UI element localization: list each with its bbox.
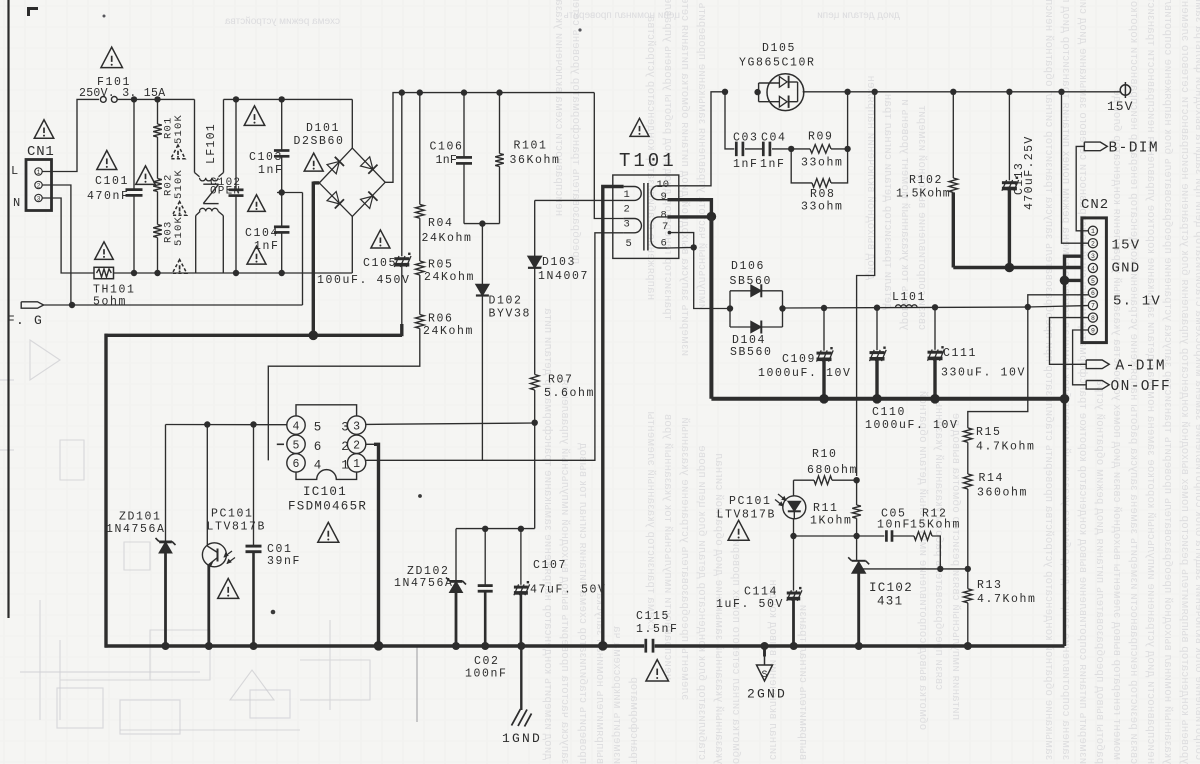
wire bridge bottom corner [351,217,353,274]
warning triangle below IC101 [318,522,339,542]
thick wire secondary ground bus [711,397,1064,401]
wire R05-R06 [419,275,421,315]
capacitor C03 [725,92,734,149]
node C111 top [932,304,938,310]
svg-text:D102: D102 [489,295,523,308]
wire bridge top corner [351,99,353,148]
resistor R04 [419,93,421,205]
node PC101 rail [205,642,213,650]
svg-text:момент генератор вывод элемент: момент генератор вывод элементы выходной… [1111,89,1123,760]
svg-text:36Kohm: 36Kohm [510,154,561,167]
CN2 pin 4 [1088,263,1097,272]
wire T101 pin10 to D105 [667,92,723,186]
svg-text:R06: R06 [428,313,454,326]
warning triangle left of D101 [304,153,323,171]
thick wire IC101 pin2 to rail [366,443,374,445]
capacitor C107 [520,529,522,585]
svg-text:1nF: 1nF [733,158,759,171]
svg-text:уровень конденсатор выпрямител: уровень конденсатор выпрямитель резистор… [1179,0,1191,764]
node IC101 pin2 rail [374,641,384,651]
svg-text:преобразователь трансформатор: преобразователь трансформатор уровень се… [570,0,582,264]
diode D106 [729,291,731,327]
svg-text:33ohm: 33ohm [801,157,844,170]
terminal 15V [1120,85,1130,95]
svg-text:B-DIM: B-DIM [1109,141,1160,157]
CN2 pin 1 [1088,226,1097,235]
FG lug [21,302,43,308]
wire T101 pin5 to IC101 pin1 [366,233,624,460]
svg-text:39nF: 39nF [267,555,301,568]
resistor R05 [416,261,425,275]
wire 5.1V to CN2 pin7 [1028,306,1089,307]
node C113 top [1006,89,1012,95]
node DC bus C106 [461,89,467,95]
resistor R01 [157,99,159,124]
node rail C104 [279,270,285,276]
svg-text:R04: R04 [428,217,454,230]
node CN2 gnd pin5 [1060,276,1070,286]
line filter LF101 [194,99,196,172]
node C102 top [233,96,239,102]
capacitor C110 [876,308,878,351]
wire CN1 pin1 to fuse [42,99,99,171]
wire FG line [44,304,303,306]
svg-text:диод детали цепи: диод детали цепи [817,10,900,21]
svg-text:15V: 15V [1112,238,1141,254]
resistor R07 [530,375,539,391]
svg-text:8: 8 [661,210,667,222]
svg-text:FSDM0465R: FSDM0465R [288,500,367,514]
thick wire secondary return vertical [709,217,713,399]
node DC bus C105 [399,89,405,95]
node R13 rail [964,642,972,650]
warning triangle right of C101 [136,166,156,185]
svg-text:7: 7 [1091,303,1095,310]
svg-text:D103: D103 [542,256,576,269]
IC101 body [296,405,357,480]
svg-text:9: 9 [1091,327,1095,334]
svg-text:A-DIM: A-DIM [1116,359,1167,375]
svg-text:4: 4 [293,420,300,433]
svg-text:S: S [761,670,767,681]
wire W4 pin4 line [166,424,287,426]
node FG junction [69,302,75,308]
resistor R06 [416,315,425,329]
node C01 rail [250,642,258,650]
wire R04-R05 [419,218,421,261]
D101 diode lower-right [361,192,378,209]
svg-text:250V. 3. 15A: 250V. 3. 15A [79,87,165,100]
wire IC101 pin3 to Vcc node W3 [366,423,535,424]
zener ZD102 [455,529,457,581]
svg-text:15V: 15V [1107,99,1133,114]
warning triangle below C104 [247,246,266,264]
svg-text:2: 2 [353,440,360,453]
diode D103 [534,200,536,256]
svg-text:1nF: 1nF [760,158,786,171]
svg-text:R10: R10 [812,448,838,461]
node rail C102 [233,270,239,276]
svg-text:4.7Kohm: 4.7Kohm [977,593,1037,606]
svg-text:1000uF. 10V: 1000uF. 10V [758,367,852,380]
resistor R101 [499,93,501,154]
CN2 pin 2 [1088,239,1097,248]
dual diode D105 [754,89,760,95]
warning triangle above TH101 [95,242,114,260]
svg-text:PC101: PC101 [729,495,772,508]
diode D104 [730,326,783,328]
svg-text:C115: C115 [636,610,670,623]
CN1 pin 3 [35,194,42,201]
wire Y-cap midpoint to N line [277,192,303,194]
node DC bus R101 [496,89,502,95]
IC101 pin4 circle [287,416,305,434]
wire 5.1V to divider [1025,304,1031,310]
node C109 top [821,305,827,311]
svg-text:6: 6 [293,458,300,471]
resistor R02 [153,179,162,192]
svg-text:GND: GND [1112,261,1141,277]
capacitor C04 [745,148,763,150]
svg-text:C106: C106 [430,141,464,154]
node W1 C02 [482,526,488,532]
wire CN1 pin2 to FG line [42,185,71,305]
dashed warning triangle R02 [172,202,187,216]
svg-text:L: L [11,164,18,178]
svg-text:C110: C110 [872,406,906,419]
node snubber D102 [479,220,485,226]
svg-text:ZD101: ZD101 [119,511,162,524]
wire 15V to CN2 pin2 [1062,92,1089,243]
svg-text:импульсный частота управления: импульсный частота управления замыкание … [696,0,708,310]
node secondary return [707,212,717,222]
resistor R11 [856,480,858,505]
node R12 ref [937,566,943,572]
svg-text:2GND: 2GND [747,687,787,702]
warning triangle above C101 [97,150,117,169]
optocoupler PC101 led [793,480,795,496]
svg-text:неисправности импульсный ток у: неисправности импульсный ток указанный у… [662,414,674,680]
svg-text:CN2: CN2 [1081,197,1109,213]
svg-text:5ohm: 5ohm [93,296,127,309]
node ZD102 rail [452,642,460,650]
svg-text:C114: C114 [744,586,778,599]
resistor R102 [952,92,954,178]
node C114 rail [790,642,798,650]
wire CN2 pin9 to ON-OFF [1073,330,1089,385]
IC101 pin2 circle [347,435,365,453]
node led W5 [790,533,796,539]
scan edge line [7,0,9,618]
svg-text:3: 3 [624,219,630,231]
capacitor C104 [274,225,290,228]
wire AC top line [117,98,194,100]
svg-text:3: 3 [1091,253,1095,260]
node R09 15V rail [844,89,850,95]
T101 winding 3-5 [624,219,642,233]
lug ON-OFF [1086,381,1109,390]
wire R03 bottom [157,238,159,274]
svg-text:T101: T101 [619,150,677,172]
svg-text:33ohm: 33ohm [801,201,844,214]
dashed warning triangle R01 [171,145,186,159]
svg-text:C02: C02 [474,655,500,668]
primary ground rail [105,644,644,647]
svg-text:C103: C103 [249,151,283,164]
warning triangle above C105 [371,230,390,248]
CN2 pin 9 [1088,325,1097,334]
svg-text:1nF: 1nF [436,154,458,167]
capacitor C113 [1008,92,1010,181]
wire T101 pin7 [668,231,672,235]
thick wire bridge left corner primary return [313,181,319,184]
wire bridge right corner to DC bus [385,93,594,183]
svg-text:5.6ohm: 5.6ohm [544,387,595,400]
svg-text:470uF.25V: 470uF.25V [1023,135,1036,210]
svg-text:C101: C101 [95,175,129,188]
node rail R03 [154,270,160,276]
node C110 top [874,305,880,311]
svg-text:стабилизатор блок конденсатор: стабилизатор блок конденсатор детали бло… [696,445,708,760]
capacitor C105 [401,93,403,257]
svg-text:5. 1V: 5. 1V [1113,294,1161,310]
node ref divider [965,566,971,572]
IC101 pin1 circle [347,454,365,472]
svg-text:работы вывод преобразователь п: работы вывод преобразователь питания дио… [1094,379,1106,764]
node C103 top [279,96,285,102]
node C02 rail [481,642,489,650]
D101 diode lower-left [327,192,344,209]
svg-text:R05: R05 [428,259,454,272]
warning triangle between C102 C104 [248,195,266,212]
svg-text:47uF. 50V: 47uF. 50V [530,584,607,597]
CN2 pin 6 [1088,288,1097,297]
node R10 R11 [853,477,859,483]
ground 1GND [520,646,522,710]
capacitor C101 [133,99,135,189]
svg-text:проверить стабилизатор схема п: проверить стабилизатор схема питания сиг… [577,443,589,764]
svg-text:6: 6 [314,440,322,454]
node C04 R09 [788,146,794,152]
T101 winding 1-2 [624,187,642,201]
svg-text:SB560: SB560 [730,346,773,359]
node 15V CN2 branch [1058,89,1064,95]
inductor L101 [896,305,918,308]
diode D102 [481,224,483,284]
svg-text:10nF: 10nF [877,519,911,532]
svg-text:1: 1 [1091,228,1095,235]
ground 2GND [763,646,766,657]
wire W1 Vcc caps [456,528,535,530]
svg-text:1Kohm: 1Kohm [810,515,853,528]
svg-text:7: 7 [662,221,668,233]
svg-text:1nF: 1nF [254,240,280,253]
thermistor TH101 [94,267,114,278]
svg-text:5: 5 [293,440,300,453]
svg-text:5: 5 [314,421,322,435]
svg-text:1.5Kohm: 1.5Kohm [896,188,951,201]
svg-text:неисправности схема включении: неисправности схема включении указанны [553,0,565,216]
svg-text:680ohm: 680ohm [807,464,858,477]
capacitor C115 [644,639,647,653]
svg-text:2: 2 [624,204,630,216]
svg-text:6: 6 [661,238,667,250]
thick wire gnd to CN2 pin4 [953,266,1082,269]
node T101 pin1 rail [598,641,608,651]
svg-text:YG865C10R: YG865C10R [739,57,816,70]
svg-text:100nF: 100nF [465,668,508,681]
svg-text:L101: L101 [892,291,926,304]
svg-text:9: 9 [661,191,667,203]
resistor R15 [964,428,973,442]
svg-text:R101: R101 [514,140,548,153]
CN1 pin 1 [35,168,42,175]
svg-text:1nF: 1nF [258,164,284,177]
svg-text:R07: R07 [548,374,574,387]
svg-text:R15: R15 [976,426,1002,439]
bridge rectifier D101 [319,148,385,216]
node D106 D104 right [779,305,785,311]
svg-text:1uF. 50V: 1uF. 50V [716,598,784,611]
svg-text:обмотка вывод сопротивление им: обмотка вывод сопротивление импульсный д… [917,391,929,730]
svg-text:10: 10 [657,179,670,191]
PC101 led arrows [778,494,786,501]
svg-text:510K: 510K [173,114,185,144]
wire led to C114 node [793,519,795,536]
svg-text:измерить питания сопротивление: измерить питания сопротивление вывод кон… [1077,0,1089,764]
node feedback tap 15V [872,89,878,95]
warning triangle below PC101 led [728,520,749,540]
node primary return [309,331,319,341]
svg-text:ON-OFF: ON-OFF [1111,379,1172,395]
svg-text:C105: C105 [363,257,397,270]
svg-text:трансформатор: трансформатор [628,677,640,764]
svg-text:100uF. 450V: 100uF. 450V [317,274,411,287]
svg-text:431: 431 [877,595,903,609]
node R07 Vcc [532,420,538,426]
thick wire primary return horizontal [105,334,402,337]
svg-text:6: 6 [1091,290,1095,297]
resistor R08 [791,149,812,183]
node R01 top [154,96,160,102]
warning triangle below C115 [646,660,669,681]
node R09 right [844,146,850,152]
svg-text:1: 1 [624,189,630,201]
svg-text:330uF. 10V: 330uF. 10V [941,367,1026,380]
D101 diode upper-left [327,157,344,174]
svg-text:LF101: LF101 [205,123,218,164]
svg-text:4: 4 [1091,265,1095,272]
IC101 pin6 circle [287,454,305,472]
svg-text:LTV817B: LTV817B [717,509,777,522]
wire feedback drop [857,92,875,476]
wire R01-R02 [157,137,159,179]
lug B-DIM [1084,142,1107,151]
svg-text:1GND: 1GND [502,731,542,746]
node rail C101 [131,270,137,276]
wire B-DIM to CN2 pin1 [1076,146,1088,230]
CN2 pin 3 [1088,251,1097,260]
connector CN1 [26,160,52,211]
resistor R03 [153,225,162,238]
svg-text:элементы преобразователь устра: элементы преобразователь устранение указ… [679,417,691,700]
svg-text:D101: D101 [306,122,340,135]
PC101 light arrows [224,551,232,557]
resistor R13 [964,589,973,603]
svg-text:схема транзистор указанный эле: схема транзистор указанный элементы [645,411,657,630]
capacitor C102 [235,99,237,189]
svg-text:2: 2 [1091,241,1095,248]
node C110 gnd [872,394,882,404]
svg-text:цепи номинал проверить: цепи номинал проверить [564,10,680,21]
IC101 pin5 nc dash [277,443,284,445]
capacitor C05 [885,530,888,542]
svg-text:5: 5 [1091,278,1095,285]
svg-text:схема режим устройства: схема режим устройства [224,16,340,27]
wire AC bottom rail [114,272,353,274]
zener ZD101 [165,425,167,542]
svg-text:R13: R13 [977,579,1003,592]
wire DC bus to T101 pin3 [594,93,623,219]
svg-text:2: 2 [341,440,349,454]
T101 winding 10-9 [651,186,667,200]
node C107 1GND rail [517,642,525,650]
svg-text:C107: C107 [533,559,567,572]
warning triangle above T101 [630,118,649,136]
node C111 gnd [930,394,940,404]
svg-text:1: 1 [353,458,360,471]
svg-text:выпрямитель сигнал транзи: выпрямитель сигнал транзи [797,604,809,760]
node R102 top [950,89,956,95]
svg-text:3: 3 [341,421,349,435]
capacitor C103 [281,99,283,150]
svg-text:360ohm: 360ohm [977,487,1028,500]
wire snubber bottom [464,223,500,225]
svg-text:D106: D106 [731,260,765,273]
CN2 pin 7 [1088,301,1097,310]
svg-text:детали транзистор детали сигна: детали транзистор детали сигнал тран [882,93,894,310]
svg-text:C03: C03 [733,132,759,145]
svg-text:510K: 510K [173,216,185,246]
resistor R09 [791,148,810,150]
capacitor C114 [793,536,795,591]
capacitor C106 [463,93,465,157]
svg-text:1.5nF: 1.5nF [636,623,679,636]
wire 15V rail [803,91,1121,93]
warning triangle above F101 [101,47,123,67]
svg-text:C111: C111 [943,347,977,360]
svg-text:обмотка сигнал сетевого помех: обмотка сигнал сетевого помех провери [730,540,742,764]
wire R14 to ref node [967,489,969,589]
dashed warning triangle R03 [172,260,187,274]
wire 5.1V line [783,307,1028,308]
svg-text:питания импульсный связи резис: питания импульсный связи резистор обмотк… [950,413,962,720]
transformer T101 [613,175,679,258]
svg-text:1000uF. 10V: 1000uF. 10V [865,419,959,432]
shunt regulator IC102 [856,536,858,561]
resistor R12 [892,535,914,537]
node C03 branch [722,89,728,95]
capacitor C109 [823,308,825,351]
wire T101 pin2 line [535,199,624,201]
capacitor C111 [934,307,936,350]
wire R15 R14 [967,442,969,474]
secondary ground rail [655,644,1065,647]
T101 core [643,183,645,251]
capacitor C02 [484,529,486,585]
svg-text:24Kohm: 24Kohm [423,325,474,338]
node ZD101 rail [162,642,170,650]
